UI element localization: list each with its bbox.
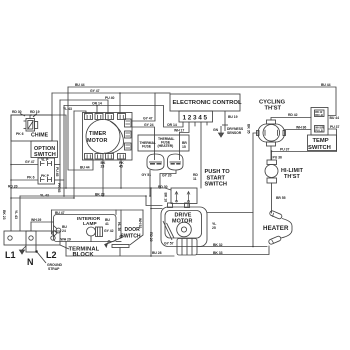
svg-text:WH 36: WH 36	[296, 126, 306, 130]
wire lamp bulb drop	[90, 236, 92, 242]
svg-text:MOTOR: MOTOR	[87, 138, 107, 144]
wire BK23 run	[20, 195, 146, 197]
wire door bracket	[52, 209, 144, 211]
svg-text:45: 45	[119, 165, 123, 169]
svg-text:FUSE: FUSE	[142, 145, 152, 149]
svg-text:24: 24	[62, 229, 66, 233]
wire BK33	[197, 246, 269, 255]
wire RD30 chime	[12, 115, 66, 188]
svg-text:PU 37: PU 37	[330, 125, 339, 129]
wire GY47 into EC	[155, 92, 170, 94]
wire timer bottom drop PK45	[120, 159, 122, 188]
svg-text:START: START	[207, 175, 226, 181]
svg-text:BU 19: BU 19	[228, 115, 238, 119]
wire YL25 motor to rail	[207, 212, 253, 214]
wire drop to BU28	[150, 209, 152, 257]
svg-text:GY 20: GY 20	[162, 174, 172, 178]
wire RD42	[271, 118, 311, 121]
svg-text:41: 41	[105, 222, 109, 226]
svg-text:GN: GN	[213, 128, 219, 132]
wire YL43 top	[74, 111, 86, 114]
svg-text:BU 47: BU 47	[55, 211, 65, 215]
wire BU44 left drop	[68, 87, 93, 170]
svg-text:WH 52: WH 52	[138, 218, 142, 228]
svg-text:HEATER: HEATER	[263, 225, 289, 232]
wire option right bottom	[55, 179, 65, 181]
wire GY47 option feed	[51, 93, 53, 141]
wire GY47 option left	[11, 164, 38, 166]
svg-text:GY 51: GY 51	[142, 173, 152, 177]
svg-text:BU 44: BU 44	[330, 116, 340, 120]
wire timer bottom drop BK23	[102, 159, 104, 196]
svg-text:RD LB: RD LB	[315, 113, 323, 117]
svg-text:GY 47: GY 47	[143, 117, 153, 121]
interior lamp DS1	[54, 215, 117, 242]
svg-text:RD 30: RD 30	[12, 110, 22, 114]
svg-text:YL 43: YL 43	[63, 107, 72, 111]
wire motor step upper	[146, 196, 162, 206]
wire motor step lower	[151, 188, 162, 209]
svg-text:OR 14: OR 14	[167, 123, 177, 127]
svg-text:GY 47: GY 47	[90, 89, 100, 93]
wire OR14 top	[64, 106, 183, 128]
wire BK23 drop to block	[19, 196, 21, 231]
hi-limit thermostat TH2	[265, 160, 278, 183]
svg-text:WH 29: WH 29	[31, 218, 41, 222]
temp switch S3	[308, 108, 337, 151]
timer motor M1	[83, 113, 133, 161]
svg-text:TIMER: TIMER	[89, 131, 106, 137]
wire PK6 option left	[11, 179, 38, 181]
wire WH29 lamp bottom	[116, 241, 121, 243]
wire GY24 timer to fuse	[132, 127, 155, 151]
svg-text:PU 36: PU 36	[273, 156, 282, 160]
svg-text:25: 25	[212, 226, 216, 230]
svg-text:PK 6: PK 6	[16, 132, 24, 136]
wire RD20 run	[11, 188, 171, 190]
wire BK35 rail	[253, 133, 257, 247]
svg-text:RD 42: RD 42	[288, 113, 298, 117]
svg-text:GY 42: GY 42	[104, 229, 114, 233]
svg-text:RD 20: RD 20	[149, 232, 153, 242]
wire OR14 left drop	[63, 106, 65, 197]
svg-text:BK 10: BK 10	[164, 193, 168, 203]
svg-text:ELECTRONIC CONTROL: ELECTRONIC CONTROL	[173, 100, 242, 106]
svg-text:12345: 12345	[183, 115, 209, 122]
svg-text:BU 44: BU 44	[75, 83, 85, 87]
ground GN	[219, 126, 224, 137]
svg-text:SWITCH: SWITCH	[308, 145, 331, 151]
svg-text:11: 11	[193, 177, 197, 181]
terminal block TB1	[4, 231, 60, 252]
door switch S5	[105, 236, 129, 257]
wire WH36	[285, 129, 312, 131]
electronic control U1	[170, 94, 240, 122]
svg-text:BR 55: BR 55	[276, 196, 286, 200]
svg-text:BK 33: BK 33	[213, 251, 223, 255]
wire PU37	[272, 129, 337, 152]
wire BU44 top	[68, 87, 336, 116]
svg-text:LAMP: LAMP	[83, 221, 97, 226]
wire WH17 fuse to EC	[180, 122, 190, 133]
svg-text:STRAP: STRAP	[48, 267, 60, 271]
svg-text:(HEATER): (HEATER)	[158, 144, 174, 148]
chime C1	[11, 114, 52, 142]
wire BU28 run	[66, 255, 174, 257]
svg-text:PU 37: PU 37	[280, 148, 289, 152]
wire lamp box drop	[65, 242, 67, 257]
svg-text:RD 20: RD 20	[8, 185, 18, 189]
heater R1	[268, 210, 292, 245]
wire EC pin3 stub	[194, 122, 196, 126]
dryness sensor	[222, 111, 228, 131]
svg-text:YL 43: YL 43	[40, 194, 49, 198]
drive motor M2	[168, 203, 190, 208]
svg-text:L1: L1	[5, 250, 16, 260]
svg-text:23: 23	[101, 165, 105, 169]
svg-text:PU 40: PU 40	[105, 96, 114, 100]
wire option right top	[55, 164, 61, 166]
svg-text:DOOR: DOOR	[125, 227, 141, 233]
wire L2 drop	[51, 210, 53, 234]
svg-text:TH'ST: TH'ST	[265, 106, 282, 112]
wire YL43 drop	[73, 111, 75, 198]
wire N drop	[30, 222, 32, 231]
svg-text:RD 19: RD 19	[30, 110, 40, 114]
option switch S2	[31, 141, 58, 184]
wire HL36 lever feed	[120, 210, 122, 236]
svg-text:PU 45: PU 45	[55, 167, 59, 176]
svg-text:PK P: PK P	[41, 174, 50, 178]
svg-text:PU LB: PU LB	[315, 129, 323, 133]
svg-text:BK 23: BK 23	[2, 210, 6, 220]
svg-text:BU 44: BU 44	[80, 166, 90, 170]
thermal fuse F2 (heater)	[160, 151, 183, 188]
svg-text:MOTOR: MOTOR	[172, 219, 192, 225]
svg-text:GY 47: GY 47	[25, 160, 35, 164]
wire cycling bottom to hi-limit	[270, 146, 272, 160]
wire WH17 stub	[179, 133, 181, 152]
svg-text:PK 6: PK 6	[27, 176, 35, 180]
wire GY47 top	[52, 93, 155, 121]
svg-text:GY 57: GY 57	[164, 242, 174, 246]
wire PU40 drop	[59, 100, 61, 188]
svg-text:GY 24: GY 24	[144, 123, 154, 127]
svg-text:WH 17: WH 17	[174, 129, 184, 133]
svg-text:BU 44: BU 44	[321, 83, 331, 87]
svg-text:HL 36: HL 36	[117, 222, 121, 231]
svg-text:L2: L2	[46, 250, 57, 260]
wire WH29 upper	[31, 221, 54, 223]
svg-text:PUSH TO: PUSH TO	[205, 169, 231, 175]
svg-text:BLOCK: BLOCK	[73, 252, 95, 258]
svg-text:BU 28: BU 28	[152, 251, 162, 255]
wire BR55	[271, 183, 273, 213]
wire YL43 run	[11, 197, 74, 199]
svg-text:BK 35: BK 35	[247, 124, 251, 134]
svg-text:WH 29: WH 29	[61, 237, 71, 241]
wire GY47 timer drop	[119, 93, 121, 114]
cycling thermostat TH1	[257, 120, 286, 146]
wire PU40	[60, 100, 108, 114]
svg-text:BK 32: BK 32	[213, 243, 223, 247]
thermal fuse F1	[147, 151, 164, 196]
svg-text:N: N	[27, 257, 34, 267]
wire BK32	[197, 246, 267, 248]
svg-text:CHIME: CHIME	[31, 133, 49, 139]
wire push to motor	[187, 204, 189, 208]
svg-text:YL 43: YL 43	[14, 210, 18, 219]
svg-text:TH'ST: TH'ST	[284, 174, 300, 180]
ground strap symbol	[20, 245, 70, 263]
svg-text:YL P: YL P	[41, 158, 49, 162]
push to start switch S4	[171, 188, 197, 204]
wire left rail	[10, 115, 12, 231]
svg-text:15: 15	[182, 145, 186, 149]
svg-text:SWITCH: SWITCH	[121, 234, 141, 240]
svg-text:SWITCH: SWITCH	[205, 182, 227, 188]
svg-text:SENSOR: SENSOR	[227, 131, 242, 135]
wire door fixed contact	[130, 210, 143, 245]
wire RD11 EC to push	[200, 122, 202, 188]
thermal fuse label box	[138, 135, 189, 151]
svg-text:TEMP: TEMP	[313, 138, 329, 144]
wire OR14 timer drop	[96, 106, 98, 115]
